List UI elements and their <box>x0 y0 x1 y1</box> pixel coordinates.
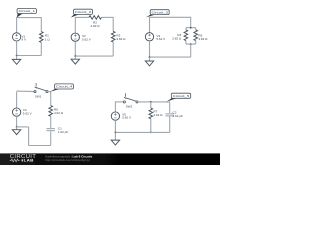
net flag Circuit_4 <box>50 84 74 92</box>
ground circuit2 <box>71 56 79 64</box>
label SW1 <box>35 95 42 99</box>
label C1 value <box>58 126 69 134</box>
net flag Circuit_5 <box>167 93 191 102</box>
wire circuit2 top right <box>101 16 113 18</box>
net flag Circuit_2 <box>71 9 93 17</box>
ground circuit3 <box>145 57 153 66</box>
wire circuit2 left rail <box>74 17 76 33</box>
voltage source V5 <box>111 112 119 120</box>
svg-text:1.62 µF: 1.62 µF <box>173 114 184 118</box>
svg-text:SW2: SW2 <box>126 105 133 109</box>
resistor R7 <box>149 108 153 119</box>
wire circuit5 R7 branch lower <box>150 119 152 133</box>
wire circuit3 feed down <box>190 17 192 28</box>
svg-text:4.02 Ω: 4.02 Ω <box>54 111 64 115</box>
wire circuit4 top left <box>17 90 34 93</box>
resistor R1 <box>40 32 44 43</box>
wire circuit3 branch B lower <box>195 41 197 45</box>
wire circuit4 return horiz <box>17 126 29 128</box>
node circuit4 ground junction <box>16 126 18 128</box>
wire circuit3 parallel top bar <box>186 27 196 29</box>
wire circuit4 return down <box>28 127 30 146</box>
wire circuit3 top <box>150 16 191 18</box>
svg-text:http://circuitlab.com/c/abcpdt: http://circuitlab.com/c/abcpdtgmyr <box>45 158 90 162</box>
node circuit3 bottom bar junction <box>190 43 192 45</box>
wire circuit4 right lower <box>50 131 52 145</box>
svg-text:3.82 Ω: 3.82 Ω <box>198 37 208 41</box>
ground circuit4 <box>12 127 20 135</box>
resistor R4 <box>184 30 188 41</box>
ground circuit5 <box>111 132 119 145</box>
wire circuit2 top left <box>75 16 89 18</box>
label V3 value <box>156 34 166 41</box>
svg-text:Circuit_3: Circuit_3 <box>152 10 169 14</box>
wire circuit5 top right <box>138 101 170 103</box>
net flag Circuit_3 <box>146 10 169 18</box>
wire circuit2 left lower <box>74 41 76 56</box>
CircuitLab logo <box>10 154 37 163</box>
wire circuit2 right rail upper <box>112 17 114 31</box>
resistor R3 <box>111 31 115 42</box>
ground circuit1 <box>12 56 20 65</box>
net flag Circuit_1 <box>17 9 37 18</box>
wire circuit5 bottom <box>115 131 169 133</box>
wire circuit4 right upper <box>50 92 52 106</box>
wire circuit1 right lower <box>40 42 42 55</box>
voltage source V1 <box>12 33 20 41</box>
svg-text:SW1: SW1 <box>35 95 42 99</box>
voltage source V2 <box>71 33 79 41</box>
capacitor C2 <box>166 114 174 116</box>
wire circuit3 left rail <box>149 17 151 33</box>
wire circuit3 parallel bottom bar <box>186 43 196 45</box>
label R2 value <box>90 20 100 27</box>
wire circuit5 R7 branch upper <box>150 102 152 108</box>
node circuit5 R7 top junction <box>150 101 152 103</box>
switch SW2 <box>123 93 138 103</box>
wire circuit1 bottom <box>17 55 42 57</box>
wire circuit3 bottom <box>150 56 191 58</box>
wire circuit5 top left <box>115 101 123 103</box>
switch SW1 <box>34 83 48 93</box>
svg-text:5.62 V: 5.62 V <box>82 37 92 41</box>
label R6 value <box>54 107 64 114</box>
svg-text:1 Ω: 1 Ω <box>45 37 51 41</box>
wire circuit5 left rail <box>114 101 116 112</box>
wire circuit3 branch B upper <box>195 28 197 30</box>
wire circuit1 left rail <box>16 17 18 33</box>
capacitor C1 <box>47 129 55 131</box>
svg-text:1.62 µF: 1.62 µF <box>58 130 69 134</box>
wire circuit2 bottom <box>75 55 113 57</box>
wire circuit5 C2 branch upper <box>169 102 171 113</box>
svg-text:3.82 Ω: 3.82 Ω <box>116 37 126 41</box>
label R5 value <box>198 33 208 41</box>
wire circuit1 right rail upper <box>40 17 42 32</box>
wire circuit1 left lower <box>16 41 18 55</box>
resistor R5 <box>194 30 198 41</box>
node circuit3 top bar junction <box>190 27 192 29</box>
label V4 value <box>23 108 33 115</box>
wire circuit3 branch A lower <box>185 41 187 45</box>
resistor R6 <box>49 106 53 117</box>
svg-text:Circuit_5: Circuit_5 <box>173 94 190 98</box>
resistor R2 <box>89 16 101 20</box>
svg-text:4.02 Ω: 4.02 Ω <box>153 113 163 117</box>
label R7 value <box>153 109 163 117</box>
label V1 value <box>22 34 28 41</box>
svg-text:Circuit_2: Circuit_2 <box>75 10 92 14</box>
wire circuit4 switch to corner <box>48 91 51 93</box>
wire circuit4 left rail <box>16 92 18 108</box>
node circuit1 ground junction <box>16 55 18 57</box>
label V2 value <box>82 34 92 41</box>
node circuit5 R7 bottom junction <box>150 132 152 134</box>
svg-text:5.62 V: 5.62 V <box>156 37 166 41</box>
svg-text:LAB: LAB <box>24 158 34 162</box>
wire circuit2 right lower <box>112 42 114 56</box>
label R4 value <box>172 33 182 41</box>
svg-text:5.62 V: 5.62 V <box>23 111 33 115</box>
wire circuit1 top <box>17 17 42 19</box>
wire circuit3 feed to bottom <box>190 44 192 57</box>
wire circuit3 branch A upper <box>185 28 187 30</box>
label R3 value <box>116 33 126 41</box>
wire circuit5 left lower <box>114 120 116 132</box>
wire circuit4 left lower <box>16 116 18 127</box>
svg-text:2.82 Ω: 2.82 Ω <box>172 37 182 41</box>
node circuit5 ground junction <box>115 132 117 134</box>
footer banner <box>0 153 220 165</box>
voltage source V3 <box>145 33 153 41</box>
voltage source V4 <box>12 108 20 116</box>
node circuit2 ground junction <box>74 55 76 57</box>
wire circuit4 bottom <box>29 145 51 147</box>
label SW2 <box>126 105 133 109</box>
wire circuit5 C2 branch lower <box>169 117 171 133</box>
label V5 value <box>122 113 132 120</box>
node circuit3 ground junction <box>149 56 151 58</box>
svg-text:2.82 Ω: 2.82 Ω <box>90 24 100 28</box>
wire circuit3 left lower <box>149 41 151 57</box>
svg-text:5.62 V: 5.62 V <box>122 116 132 120</box>
svg-text:Circuit_1: Circuit_1 <box>19 9 36 13</box>
wire circuit4 mid right <box>50 116 52 128</box>
footer attribution text <box>45 154 92 162</box>
label C2 value <box>173 111 184 119</box>
label R1 value <box>45 33 51 41</box>
svg-text:Circuit_4: Circuit_4 <box>56 85 73 89</box>
